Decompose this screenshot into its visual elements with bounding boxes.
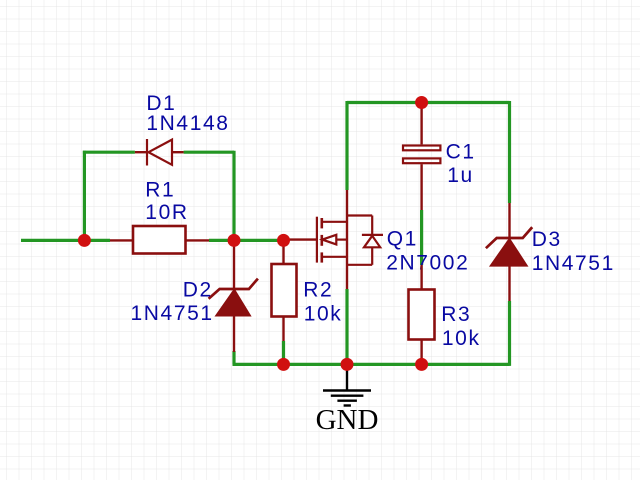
resistor R1 xyxy=(110,226,209,254)
wire branch up from input junction xyxy=(83,151,86,241)
body diode top branch xyxy=(347,214,372,216)
channel segment top xyxy=(320,218,323,228)
svg-text:GND: GND xyxy=(316,404,379,436)
wire Q1 drain up to top rail xyxy=(345,101,348,190)
wire top rail xyxy=(347,101,510,104)
body diode triangle xyxy=(364,236,380,248)
svg-text:R1: R1 xyxy=(145,179,175,202)
channel segment bottom xyxy=(320,252,323,262)
wire D2 bottom stub xyxy=(232,351,235,364)
wire top-left horizontal to D1 xyxy=(83,151,135,154)
junction R2 bottom node xyxy=(277,358,290,371)
svg-text:10k: 10k xyxy=(442,327,481,350)
body diode cathode lead xyxy=(371,216,373,235)
svg-text:1N4751: 1N4751 xyxy=(131,302,214,325)
resistor R2 xyxy=(272,240,297,341)
body diode anode lead xyxy=(371,247,373,264)
zener diode D2 xyxy=(209,240,258,352)
substrate arrow shaft xyxy=(336,239,347,241)
wire Q1 source down to rail xyxy=(345,289,348,364)
svg-text:1u: 1u xyxy=(447,164,474,187)
wire corner down to main rail xyxy=(232,151,235,241)
junction GND node xyxy=(341,358,354,371)
source connection xyxy=(322,256,347,258)
vertical spine / drain-source pins xyxy=(346,190,348,289)
substrate arrowhead xyxy=(322,235,336,245)
svg-text:Q1: Q1 xyxy=(387,227,418,250)
wire R2 bottom stub xyxy=(282,341,285,364)
junction input node xyxy=(78,234,91,247)
wire R1 to gate junctions xyxy=(209,239,289,242)
junction C1 top node xyxy=(415,96,428,109)
wire input rail xyxy=(21,239,110,242)
wire D1 cathode-side to corner xyxy=(184,151,234,154)
svg-text:D2: D2 xyxy=(183,279,213,302)
wire D3 top xyxy=(508,101,511,203)
channel segment middle xyxy=(320,235,323,246)
svg-text:10R: 10R xyxy=(145,201,188,224)
junction R3 bottom node xyxy=(415,358,428,371)
body diode bottom branch xyxy=(347,264,372,266)
svg-text:1N4751: 1N4751 xyxy=(532,252,615,275)
gate pin lead xyxy=(289,238,317,240)
diode D1 xyxy=(135,139,184,166)
svg-text:R3: R3 xyxy=(441,303,471,326)
capacitor C1 xyxy=(403,103,440,211)
ground xyxy=(323,364,371,405)
wire C1 to R3 link xyxy=(420,210,423,265)
drain connection xyxy=(322,221,347,223)
junction D1/D2 node xyxy=(228,234,241,247)
svg-text:2N7002: 2N7002 xyxy=(386,252,469,275)
zener diode D3 xyxy=(486,203,532,301)
junction R2/gate node xyxy=(277,234,290,247)
wire bottom rail xyxy=(233,363,510,366)
svg-text:10k: 10k xyxy=(304,302,343,325)
body diode cathode bar xyxy=(362,234,383,236)
wire D3 bottom xyxy=(508,301,511,366)
svg-text:D3: D3 xyxy=(532,228,562,251)
transistor Q1 xyxy=(289,190,383,289)
svg-text:1N4148: 1N4148 xyxy=(146,112,229,135)
resistor R3 xyxy=(409,265,435,364)
svg-text:R2: R2 xyxy=(303,279,333,302)
svg-text:C1: C1 xyxy=(446,140,476,163)
gate bar xyxy=(316,217,318,263)
